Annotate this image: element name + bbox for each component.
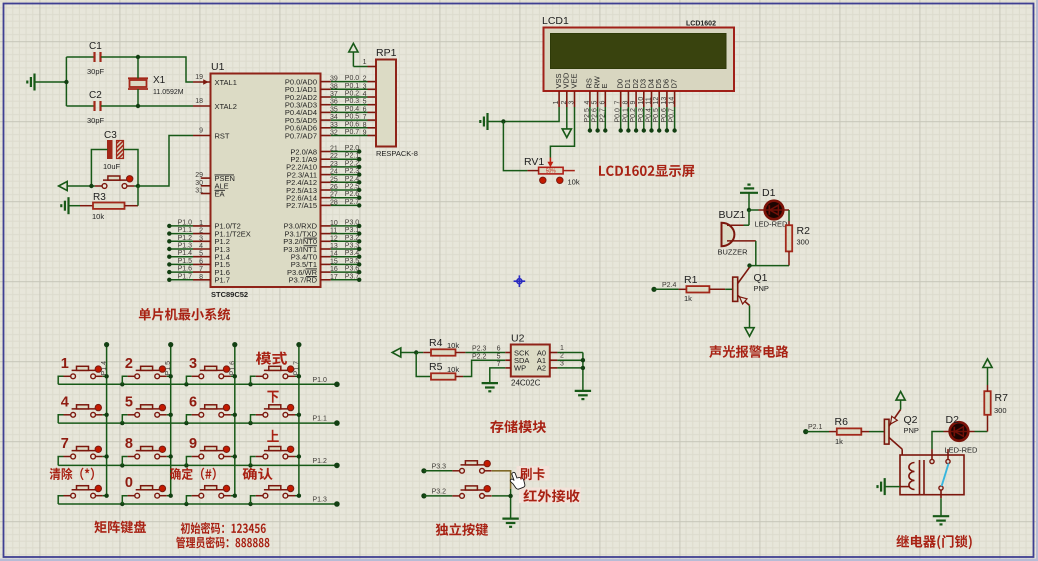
pin P2.3 (24) xyxy=(287,168,362,179)
svg-text:1: 1 xyxy=(363,59,367,66)
pin P1.4 (5) xyxy=(193,251,230,262)
svg-text:18: 18 xyxy=(195,98,203,105)
svg-text:6: 6 xyxy=(189,394,197,410)
svg-text:P0.2: P0.2 xyxy=(630,108,637,123)
pin P2.5 (26) xyxy=(286,184,361,195)
wire keypad row P1.1 xyxy=(58,416,340,426)
svg-text:12: 12 xyxy=(653,97,660,105)
svg-text:P0.7: P0.7 xyxy=(669,108,676,123)
ground (R3) xyxy=(61,197,80,214)
svg-text:9: 9 xyxy=(630,101,637,105)
node keypad row 1 col 3 xyxy=(248,421,252,425)
wire WP to ground xyxy=(490,368,506,383)
pin LCD D2 (9) xyxy=(630,79,640,133)
wire D1 right to R2 xyxy=(783,210,789,225)
svg-text:P0.5: P0.5 xyxy=(653,108,660,123)
capacitor C3 (10uF polarized) xyxy=(103,130,124,171)
label highlight boxes xyxy=(517,466,550,481)
svg-text:27: 27 xyxy=(330,192,338,199)
label 刷卡 xyxy=(520,467,545,480)
svg-text:P1.5: P1.5 xyxy=(178,258,193,265)
svg-text:6: 6 xyxy=(599,101,606,105)
svg-text:P1.1: P1.1 xyxy=(313,416,328,423)
wire XTAL1 xyxy=(138,57,193,82)
svg-text:RESPACK-8: RESPACK-8 xyxy=(376,149,418,158)
svg-text:8: 8 xyxy=(125,436,133,452)
pin LCD E (6) xyxy=(599,83,609,132)
svg-text:P0.7: P0.7 xyxy=(345,129,360,136)
node keypad row 1 col 2 xyxy=(184,421,188,425)
button keypad r4c2 xyxy=(122,475,173,504)
svg-text:8: 8 xyxy=(199,274,203,281)
svg-text:BUZ1: BUZ1 xyxy=(719,209,746,221)
svg-text:R4: R4 xyxy=(429,337,443,349)
node reset left xyxy=(89,184,93,188)
node keypad row 0 col 1 xyxy=(120,382,124,386)
node R4/R5 junction xyxy=(414,350,418,354)
svg-text:PNP: PNP xyxy=(754,284,769,293)
net P3.3 xyxy=(421,464,452,474)
svg-text:1: 1 xyxy=(199,220,203,227)
pin P3.7 (17) xyxy=(289,273,362,284)
mouse cursor xyxy=(510,472,525,489)
svg-text:30: 30 xyxy=(195,180,203,187)
pin LCD D6 (13) xyxy=(661,79,671,133)
pin P3.4 (14) xyxy=(291,250,362,261)
pin LCD D4 (11) xyxy=(646,79,656,133)
svg-text:C2: C2 xyxy=(89,90,102,101)
pin P0.0 (39) and wire to RP1 xyxy=(285,75,376,86)
pin P0.1 (38) and wire to RP1 xyxy=(285,83,376,94)
wire Q1 emitter up xyxy=(749,266,751,268)
button 红外接收 (P3.2) xyxy=(452,486,491,499)
label 红外接收 xyxy=(523,489,579,502)
svg-text:12: 12 xyxy=(330,235,338,242)
button keypad r3c3 xyxy=(186,436,237,465)
wire keypad row P1.0 xyxy=(58,377,340,387)
wire keypad row P1.2 xyxy=(58,458,340,468)
svg-text:5: 5 xyxy=(592,101,599,105)
svg-text:R7: R7 xyxy=(995,392,1009,404)
net P3.2 xyxy=(421,489,452,499)
wire D2 to R7 xyxy=(968,415,987,432)
LED D2 xyxy=(945,414,979,455)
ground (WP) xyxy=(482,382,498,384)
pin P0.7 (32) and wire to RP1 xyxy=(285,129,376,140)
pin P0.6 (33) and wire to RP1 xyxy=(285,121,376,132)
node keypad row 0 col 3 xyxy=(248,382,252,386)
svg-text:P3.7: P3.7 xyxy=(345,273,360,280)
svg-text:19: 19 xyxy=(195,74,203,81)
svg-text:D7: D7 xyxy=(669,79,678,89)
svg-text:P2.5: P2.5 xyxy=(345,184,360,191)
wire keypad column P1.6 xyxy=(229,342,237,496)
svg-text:9: 9 xyxy=(189,436,197,452)
transistor Q1 PNP xyxy=(733,267,769,305)
wire R4 to SCK xyxy=(465,352,505,354)
svg-text:C3: C3 xyxy=(104,130,117,141)
svg-text:P1.2: P1.2 xyxy=(313,458,328,465)
net P2.1 xyxy=(803,424,829,434)
svg-text:P0.1: P0.1 xyxy=(345,83,360,90)
pin P2.1 (22) xyxy=(290,153,361,164)
pin P1.6 (7) xyxy=(193,266,230,277)
svg-text:A2: A2 xyxy=(537,364,546,373)
power arrow down (VDD) xyxy=(562,107,571,138)
svg-text:X1: X1 xyxy=(153,75,166,86)
svg-text:P3.3: P3.3 xyxy=(345,243,360,250)
svg-text:XTAL1: XTAL1 xyxy=(215,78,237,87)
button keypad r2c4 xyxy=(251,404,302,423)
button keypad r1c2 xyxy=(122,356,173,385)
svg-text:16: 16 xyxy=(330,266,338,273)
svg-text:P2.3: P2.3 xyxy=(345,168,360,175)
node A2 rail xyxy=(581,366,585,370)
svg-text:P3.0: P3.0 xyxy=(345,219,360,226)
wire BUZ1 bottom xyxy=(755,241,757,266)
key label 下 xyxy=(267,391,278,403)
svg-text:300: 300 xyxy=(994,406,1007,415)
svg-text:P0.2: P0.2 xyxy=(345,91,360,98)
svg-text:37: 37 xyxy=(330,91,338,98)
svg-text:6: 6 xyxy=(363,106,367,113)
svg-text:P2.6: P2.6 xyxy=(345,191,360,198)
svg-text:11: 11 xyxy=(330,228,337,235)
ground (alarm top) xyxy=(740,185,758,210)
button keypad r3c4 xyxy=(251,446,302,465)
svg-text:1: 1 xyxy=(553,101,560,105)
svg-text:5: 5 xyxy=(125,394,133,410)
svg-text:36: 36 xyxy=(330,99,338,106)
pin RST (9) xyxy=(193,128,230,141)
pin P0.3 (36) and wire to RP1 xyxy=(285,98,376,109)
svg-text:28: 28 xyxy=(330,199,338,206)
pin ALE (30) xyxy=(195,180,228,191)
svg-text:P2.5: P2.5 xyxy=(584,108,591,123)
pin P1.7 (8) xyxy=(193,274,230,285)
node VSS/RV1 junction xyxy=(501,119,505,123)
svg-text:P1.1: P1.1 xyxy=(178,227,193,234)
svg-text:10k: 10k xyxy=(447,341,459,350)
resistor pack RP1 RESPACK-8 xyxy=(376,47,418,158)
svg-text:P0.4: P0.4 xyxy=(646,108,653,123)
svg-text:PNP: PNP xyxy=(904,426,919,435)
origin marker xyxy=(514,275,526,287)
svg-text:P2.1: P2.1 xyxy=(808,424,823,431)
pin RP1-1 xyxy=(353,59,376,67)
svg-text:2: 2 xyxy=(561,101,568,105)
pin LCD VSS (1) xyxy=(553,73,563,107)
wire P3.2 button to rail xyxy=(492,495,511,497)
power arrow (R7) xyxy=(983,359,992,385)
svg-text:R3: R3 xyxy=(93,192,106,203)
power arrow (Q2) xyxy=(896,392,905,410)
svg-text:10uF: 10uF xyxy=(103,162,121,171)
svg-text:32: 32 xyxy=(330,130,338,137)
pin LCD D0 (7) xyxy=(615,79,625,133)
svg-text:P0.3: P0.3 xyxy=(345,98,360,105)
pin P2.2 (23) xyxy=(286,160,361,171)
node keypad row 2 col 1 xyxy=(120,463,124,467)
button keypad r4c1 xyxy=(58,485,109,504)
button keypad r4c4 xyxy=(251,485,302,504)
svg-text:P0.6: P0.6 xyxy=(661,108,668,123)
svg-text:P0.1: P0.1 xyxy=(622,108,629,123)
wire net P1.7 xyxy=(167,273,193,282)
svg-text:P2.7: P2.7 xyxy=(599,108,606,123)
pin P3.2 (12) xyxy=(283,235,361,246)
wire VSS to ground xyxy=(503,107,559,122)
svg-text:P3.3: P3.3 xyxy=(432,464,447,471)
wire net P1.3 xyxy=(167,243,193,252)
svg-text:4: 4 xyxy=(61,394,69,410)
svg-text:5: 5 xyxy=(199,251,203,258)
resistor R2 300 xyxy=(786,225,810,266)
node X1 bottom xyxy=(136,104,140,108)
svg-text:VEE: VEE xyxy=(569,73,578,88)
svg-text:STC89C52: STC89C52 xyxy=(211,290,248,299)
pin LCD D3 (10) xyxy=(638,79,648,133)
wire RST xyxy=(138,136,193,187)
wire VEE to RV1 wiper xyxy=(550,107,574,158)
label 矩阵键盘 xyxy=(94,521,146,534)
resistor R4 10k xyxy=(416,337,465,356)
svg-text:LCD1602: LCD1602 xyxy=(686,21,716,28)
button keypad r1c4 xyxy=(251,366,302,384)
svg-text:P2.7/A15: P2.7/A15 xyxy=(286,201,317,210)
LCD1 LCD1602 display xyxy=(542,15,734,91)
pin P1.1 (2) xyxy=(193,228,251,239)
svg-text:17: 17 xyxy=(330,274,338,281)
svg-text:7: 7 xyxy=(199,266,203,273)
ground (independent keys) xyxy=(502,517,518,519)
svg-text:RP1: RP1 xyxy=(376,47,397,59)
svg-text:P2.4: P2.4 xyxy=(662,282,677,289)
svg-text:P1.0: P1.0 xyxy=(313,377,328,384)
svg-text:P2.7: P2.7 xyxy=(345,199,360,206)
pin LCD D5 (12) xyxy=(653,79,663,133)
svg-text:RV1: RV1 xyxy=(524,156,544,168)
svg-text:11: 11 xyxy=(646,97,653,104)
svg-text:P3.5: P3.5 xyxy=(345,258,360,265)
button keypad r4c3 xyxy=(186,485,237,504)
pin LCD RW (5) xyxy=(592,75,602,132)
label 存储模块 xyxy=(490,420,546,433)
buzzer BUZ1 xyxy=(718,209,756,257)
svg-text:E: E xyxy=(600,83,609,88)
svg-text:29: 29 xyxy=(195,172,203,179)
transistor Q2 PNP xyxy=(884,410,919,450)
svg-text:C1: C1 xyxy=(89,41,102,52)
svg-text:P1.5: P1.5 xyxy=(165,361,172,376)
node keypad row 2 col 3 xyxy=(248,463,252,467)
svg-text:2: 2 xyxy=(560,353,564,360)
pin P2.0 (21) xyxy=(290,145,361,156)
pin P3.6 (16) xyxy=(287,266,361,277)
svg-text:7: 7 xyxy=(615,101,622,105)
power arrow (RP1) xyxy=(349,43,358,66)
svg-text:P1.0: P1.0 xyxy=(178,219,193,226)
node reset right xyxy=(136,184,140,188)
svg-text:P1.7: P1.7 xyxy=(215,276,230,285)
node keypad row 3 col 2 xyxy=(184,502,188,506)
label 独立按键 xyxy=(436,523,488,536)
svg-text:R1: R1 xyxy=(684,274,698,286)
node keypad row 3 col 1 xyxy=(120,502,124,506)
svg-text:P0.7/AD7: P0.7/AD7 xyxy=(285,131,317,140)
svg-text:7: 7 xyxy=(61,436,69,452)
pin EA (31) xyxy=(195,188,225,199)
svg-text:34: 34 xyxy=(330,114,338,121)
pin XTAL2 (18) xyxy=(193,98,237,111)
svg-text:14: 14 xyxy=(669,97,676,105)
svg-text:3: 3 xyxy=(560,360,564,367)
svg-text:BUZZER: BUZZER xyxy=(718,248,749,257)
wire keypad column P1.5 xyxy=(165,342,173,496)
resistor R7 300 xyxy=(984,385,1008,415)
wire C3 right xyxy=(124,150,139,187)
button keypad r3c1 xyxy=(58,436,109,465)
net P2.4 xyxy=(651,282,678,292)
button keypad r1c3 xyxy=(186,356,237,385)
pin P0.5 (34) and wire to RP1 xyxy=(285,114,376,125)
node X1 top xyxy=(136,55,140,59)
svg-text:8: 8 xyxy=(363,122,367,129)
wire base Q2 xyxy=(869,431,884,433)
svg-text:39: 39 xyxy=(330,76,338,83)
wire ground rail to RV1 left xyxy=(503,122,527,171)
svg-text:2: 2 xyxy=(199,228,203,235)
wire A0/A1/A2 rail xyxy=(557,353,583,391)
pin P2.4 (25) xyxy=(286,176,361,187)
wire keypad row P1.3 xyxy=(58,497,340,507)
svg-text:31: 31 xyxy=(195,188,203,195)
svg-text:10: 10 xyxy=(330,220,338,227)
chip U1 microcontroller STC89C52 xyxy=(211,61,321,299)
svg-text:1: 1 xyxy=(61,356,69,372)
svg-text:9: 9 xyxy=(363,130,367,137)
svg-text:14: 14 xyxy=(330,251,338,258)
pin LCD D7 (14) xyxy=(669,79,679,133)
power arrow (storage, left) xyxy=(392,348,416,357)
node D1/BUZ1 junction xyxy=(747,208,751,212)
pin LCD RS (4) xyxy=(584,78,594,133)
wire Q1 collector down + ground arrow xyxy=(745,305,754,336)
svg-text:11.0592M: 11.0592M xyxy=(153,89,184,96)
wire net P1.4 xyxy=(167,250,193,259)
svg-text:6: 6 xyxy=(199,258,203,265)
svg-text:6: 6 xyxy=(497,346,501,353)
svg-text:P0.4: P0.4 xyxy=(345,106,360,113)
pin P2.6 (27) xyxy=(286,191,361,202)
LED D1 xyxy=(755,187,789,229)
svg-text:LCD1: LCD1 xyxy=(542,15,569,27)
svg-text:P2.2: P2.2 xyxy=(345,160,360,167)
svg-text:7: 7 xyxy=(363,114,367,121)
wire keypad column P1.7 xyxy=(293,342,301,496)
svg-text:P0.6: P0.6 xyxy=(345,121,360,128)
pin P1.2 (3) xyxy=(193,235,230,246)
wire net P1.5 xyxy=(167,258,193,267)
node keypad row 2 col 2 xyxy=(184,463,188,467)
wire C3 left xyxy=(91,150,107,187)
wire BUZ1 top xyxy=(744,224,750,226)
svg-text:P2.3: P2.3 xyxy=(472,346,487,353)
svg-text:10: 10 xyxy=(638,97,645,105)
pin P3.3 (13) xyxy=(283,243,361,254)
pin P3.5 (15) xyxy=(291,258,362,269)
resistor R3 10k xyxy=(80,192,138,221)
svg-text:13: 13 xyxy=(330,243,338,250)
svg-text:10k: 10k xyxy=(92,212,104,221)
svg-text:2: 2 xyxy=(125,356,133,372)
pin XTAL1 (19) xyxy=(193,74,237,87)
crystal X1 xyxy=(128,75,184,96)
svg-text:RST: RST xyxy=(215,131,230,140)
svg-text:21: 21 xyxy=(330,146,338,153)
pin LCD VEE (3) xyxy=(569,73,579,107)
svg-text:1k: 1k xyxy=(835,437,843,446)
svg-text:3: 3 xyxy=(189,356,197,372)
wire net P1.0 xyxy=(167,219,193,228)
svg-text:P3.2: P3.2 xyxy=(345,235,360,242)
pin P1.3 (4) xyxy=(193,243,230,254)
svg-text:Q1: Q1 xyxy=(754,272,768,284)
svg-text:10k: 10k xyxy=(568,178,580,187)
svg-text:5: 5 xyxy=(363,99,367,106)
svg-text:P0.0: P0.0 xyxy=(345,75,360,82)
label 管理员密码888888 xyxy=(176,536,269,548)
svg-text:P1.2: P1.2 xyxy=(178,235,193,242)
svg-text:22: 22 xyxy=(330,153,338,160)
svg-text:33: 33 xyxy=(330,122,338,129)
wire net P1.1 xyxy=(167,227,193,236)
button keypad r2c1 xyxy=(58,394,109,423)
svg-text:7: 7 xyxy=(497,361,501,368)
svg-text:P1.7: P1.7 xyxy=(293,361,300,376)
svg-text:D1: D1 xyxy=(762,187,776,199)
ground (relay switch) xyxy=(933,515,949,517)
svg-text:15: 15 xyxy=(330,258,338,265)
pin P3.1 (11) xyxy=(284,227,361,238)
svg-text:P0.3: P0.3 xyxy=(638,108,645,123)
pin P0.2 (37) and wire to RP1 xyxy=(285,91,376,102)
svg-text:50%: 50% xyxy=(546,169,557,175)
svg-text:P1.3: P1.3 xyxy=(178,243,193,250)
resistor R5 10k xyxy=(416,353,463,380)
svg-text:P1.7: P1.7 xyxy=(178,273,193,280)
label LCD1602显示屏 xyxy=(599,165,694,177)
label 单片机最小系统 xyxy=(139,308,230,321)
node A1 rail xyxy=(581,358,585,362)
pin P1.0 (1) xyxy=(193,220,241,231)
svg-text:P2.1: P2.1 xyxy=(345,153,360,160)
svg-text:R6: R6 xyxy=(835,416,849,428)
svg-text:300: 300 xyxy=(797,238,810,247)
svg-text:P1.6: P1.6 xyxy=(178,266,193,273)
node keypad row 1 col 1 xyxy=(120,421,124,425)
wire P3.3 button to rail (highlighted) xyxy=(492,471,511,489)
ground (LCD VSS) xyxy=(480,113,503,130)
key label 确认 xyxy=(243,468,273,480)
key label 上 xyxy=(267,430,279,442)
pin LCD D1 (8) xyxy=(622,79,632,133)
ground (crystal caps) xyxy=(27,74,66,91)
svg-text:13: 13 xyxy=(661,97,668,105)
svg-text:4: 4 xyxy=(584,101,591,105)
svg-text:30pF: 30pF xyxy=(87,67,105,76)
svg-text:1: 1 xyxy=(560,345,564,352)
